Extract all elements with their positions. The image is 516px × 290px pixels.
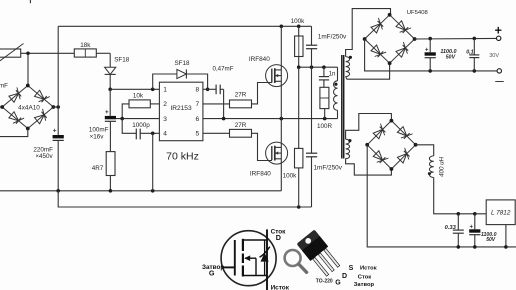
resistor 4R7 xyxy=(106,152,115,176)
svg-text:Исток: Исток xyxy=(271,285,290,290)
svg-text:G: G xyxy=(335,280,341,287)
node 0.33 bottom xyxy=(457,245,461,249)
svg-text:D: D xyxy=(276,233,281,242)
wire bridge bottom corner to mains xyxy=(0,129,28,137)
svg-text:100k: 100k xyxy=(291,18,306,25)
node A /1n xyxy=(322,65,326,69)
node Vcc xyxy=(108,88,112,92)
detail gate lead xyxy=(223,266,235,268)
wire 27R to Q1 gate xyxy=(252,83,273,104)
wire sec2 bottom to bridge2 bottom corner xyxy=(346,159,392,176)
svg-text:1mF: 1mF xyxy=(0,83,8,90)
inductor 400uH xyxy=(416,145,434,156)
bridge rectifier VD 4x4A10 corner node 1 xyxy=(52,105,56,109)
svg-text:10k: 10k xyxy=(133,93,144,100)
svg-text:D: D xyxy=(342,273,347,280)
wire inductor to L7812 input xyxy=(434,178,487,214)
node A /100k xyxy=(297,65,301,69)
terminal +30V xyxy=(497,36,501,40)
bridge rectifier (12V output) corner node 0 xyxy=(390,119,394,123)
bridge rectifier UF5408 (30V output) diode D-b xyxy=(371,45,380,54)
terminal -30V xyxy=(497,69,501,73)
bridge rectifier (12V output) diode D-c xyxy=(397,127,406,136)
wire 10k to CT node xyxy=(122,104,129,119)
svg-text:1: 1 xyxy=(163,87,167,94)
wire Q1 drain-source vertical xyxy=(280,26,282,118)
node lower 100k on return line xyxy=(297,205,301,209)
inductor L 400uH coil xyxy=(429,156,433,178)
wire -30V rail xyxy=(365,39,497,71)
svg-text:Затвор: Затвор xyxy=(354,282,375,288)
capacitor 1000p xyxy=(135,129,137,140)
capacitor C 220mF/450v plates xyxy=(53,135,64,138)
svg-text:L 7812: L 7812 xyxy=(491,210,511,217)
node 0,1- xyxy=(473,69,477,73)
wire sec1 top to bridge top corner xyxy=(346,9,391,57)
wire CT down to 1000p xyxy=(122,119,136,134)
wire pin5 LO xyxy=(203,132,230,134)
dot inductor xyxy=(428,172,431,175)
svg-text:30V: 30V xyxy=(489,53,499,59)
capacitor 0.33 xyxy=(457,214,459,230)
svg-text:+: + xyxy=(53,128,57,135)
transformer T1 secondary2 coil xyxy=(346,139,350,158)
svg-text:4R7: 4R7 xyxy=(92,165,104,172)
svg-text:UF5408: UF5408 xyxy=(407,10,429,16)
wire pin3 CT xyxy=(116,118,160,120)
wire Q2 drain-source vertical xyxy=(280,119,282,191)
node 0,1+ xyxy=(473,37,477,41)
svg-text:+: + xyxy=(105,109,109,116)
wire VD2 cathode to pin8 wire xyxy=(186,74,207,89)
wire COM down to rail xyxy=(152,133,154,191)
bridge rectifier (12V output) corner node 1 xyxy=(414,143,418,147)
wire L7812 gnd xyxy=(505,225,507,247)
node VS/half-bridge midpoint xyxy=(280,117,284,121)
MOSFET pinout detail circle xyxy=(221,231,276,286)
bridge rectifier VD 4x4A10 corner node 2 xyxy=(26,127,30,131)
wire sec1 bottom to bridge bottom corner xyxy=(346,63,390,79)
detail drain-source vertical xyxy=(266,229,268,290)
svg-text:5: 5 xyxy=(196,131,200,138)
node VS/0,47mF xyxy=(222,117,226,121)
svg-text:100k: 100k xyxy=(283,173,298,180)
svg-text:TO-220: TO-220 xyxy=(316,278,333,284)
transistor Q1 IRF840 symbol xyxy=(266,65,288,87)
wire bridge2 minus down xyxy=(367,145,516,247)
bridge rectifier (12V output) diode D-b xyxy=(373,151,382,160)
wire 1n to 100R xyxy=(323,80,325,87)
bridge rectifier UF5408 (30V output) corner node 0 xyxy=(388,13,392,17)
bridge rectifier (12V output) corner node 2 xyxy=(390,167,394,171)
bridge rectifier UF5408 (30V output) diode D-a xyxy=(371,24,380,33)
svg-text:400 uH: 400 uH xyxy=(439,156,446,176)
svg-text:Сток: Сток xyxy=(358,274,371,280)
wire stub top edge xyxy=(29,0,31,3)
svg-text:1n: 1n xyxy=(329,70,336,77)
wire mains to bridge left corner xyxy=(0,106,2,108)
detail channel segments xyxy=(242,239,244,251)
svg-text:18k: 18k xyxy=(80,42,91,49)
svg-text:7: 7 xyxy=(196,101,200,108)
resistor 100R (snubber) xyxy=(320,87,329,108)
wire cap to VS drop xyxy=(220,88,223,90)
wire return line to lower 1mF cap xyxy=(58,191,311,207)
svg-text:0.33: 0.33 xyxy=(445,225,457,231)
node 100k on +rail xyxy=(297,25,301,29)
wire 100mF to 4R7 xyxy=(109,121,111,151)
bridge rectifier UF5408 (30V output) corner node 2 xyxy=(388,61,392,65)
wire top +310V rail xyxy=(58,25,311,27)
node pin4 line on rail xyxy=(151,189,155,193)
wire down to SF18 anode xyxy=(109,53,111,67)
wire down to mains bridge top corner xyxy=(27,53,29,85)
wire 100k-upper node to 100k-lower xyxy=(298,67,300,148)
svg-text:0,1: 0,1 xyxy=(466,49,474,55)
capacitor 100mF x16v (electrolytic) xyxy=(109,89,111,116)
node +310V / bridge+ xyxy=(56,105,60,109)
wire 4R7 to gnd rail xyxy=(109,176,111,191)
wire bridge right corner to +310V line xyxy=(53,106,58,108)
wire 100R to VS node xyxy=(324,109,326,119)
bridge rectifier VD 4x4A10 diode D-c xyxy=(35,90,45,99)
transformer T1 primary winding xyxy=(337,67,339,81)
svg-text:0,47mF: 0,47mF xyxy=(213,66,234,73)
detail source tap xyxy=(243,275,267,277)
node junction bridge-top / mains xyxy=(26,52,30,56)
svg-text:1000p: 1000p xyxy=(132,122,150,129)
capacitor 1100uF-2 plates xyxy=(469,229,480,232)
wire SF18 cathode down xyxy=(109,74,111,89)
capacitor 1100.0/50V output xyxy=(429,39,431,53)
resistor 18k xyxy=(74,49,96,57)
capacitor 0,47mF xyxy=(215,85,217,95)
svg-text:×450v: ×450v xyxy=(35,153,53,160)
svg-text:4x4A10: 4x4A10 xyxy=(18,105,40,112)
wire 27R to Q2 gate xyxy=(252,133,273,160)
detail gate bar xyxy=(234,240,236,276)
bridge rectifier VD 4x4A10 diode D-b xyxy=(9,112,19,121)
svg-text:50V: 50V xyxy=(486,237,496,243)
node 1100uF+ xyxy=(428,37,432,41)
node 4R7 on rail xyxy=(109,189,113,193)
wire +30V rail xyxy=(415,37,497,40)
node pin8/VD2 xyxy=(206,88,210,92)
wire pin6 VS / half-bridge midpoint xyxy=(203,118,338,120)
bridge rectifier VD 4x4A10 corner node 3 xyxy=(0,105,4,109)
bridge rectifier (12V output) diode D-d xyxy=(397,154,406,163)
svg-text:+: + xyxy=(495,24,502,38)
svg-text:×16v: ×16v xyxy=(90,133,105,140)
node 220mF- on rail xyxy=(56,189,60,193)
resistor 100k (lower) xyxy=(295,148,303,168)
bridge rectifier VD 4x4A10 diode D-a xyxy=(9,93,19,102)
svg-text:27R: 27R xyxy=(235,122,247,129)
bridge rectifier VD 4x4A10 corner node 0 xyxy=(26,84,30,88)
svg-text:S: S xyxy=(349,265,354,272)
TO-220 package drawing xyxy=(297,229,343,278)
capacitor 1n (snubber) xyxy=(323,67,325,76)
wire pin8 to 0,47mF xyxy=(203,88,216,90)
wire sec2 top to bridge2 top corner xyxy=(346,114,392,140)
svg-text:IR2153: IR2153 xyxy=(170,105,192,112)
svg-text:SF18: SF18 xyxy=(114,57,130,64)
svg-text:100R: 100R xyxy=(317,123,333,130)
node 1100-2 bottom xyxy=(473,245,477,249)
transformer T1 secondary1 coil xyxy=(346,57,350,77)
svg-text:IRF840: IRF840 xyxy=(249,56,270,63)
capacitor 1100.0/50V (12V side) xyxy=(474,214,476,230)
wire 10k to pin2 xyxy=(150,103,159,105)
capacitor 1100uF plates xyxy=(425,52,436,55)
svg-text:50V: 50V xyxy=(446,54,456,60)
wire lower 1mF to return line xyxy=(311,157,313,207)
svg-text:6: 6 xyxy=(196,116,200,123)
svg-text:Исток: Исток xyxy=(360,266,377,272)
svg-text:G: G xyxy=(209,269,215,278)
bridge rectifier (12V output) xyxy=(367,121,391,145)
wire between 1mF caps xyxy=(311,49,313,154)
thermistor RT1 (box with diagonal) xyxy=(0,49,21,57)
wire node A (snubber top) xyxy=(299,66,338,68)
bridge rectifier VD 4x4A10 diode D-d xyxy=(35,115,45,124)
node drain Q1 on +rail xyxy=(280,25,284,29)
diode SF18 VD2 (pointing right) xyxy=(177,69,187,78)
node 0.33 top xyxy=(457,212,461,216)
bridge rectifier UF5408 (30V output) corner node 1 xyxy=(413,37,417,41)
resistor 100k (upper) xyxy=(298,26,300,36)
svg-text:IRF840: IRF840 xyxy=(250,170,271,177)
bridge rectifier UF5408 (30V output) xyxy=(365,15,390,39)
node pin1/bootstrap loop xyxy=(151,88,155,92)
node pin4/COM xyxy=(151,132,155,136)
bridge rectifier VD 4x4A10 xyxy=(2,86,28,108)
node VS/100R xyxy=(323,117,327,121)
node CT xyxy=(120,117,124,121)
detail body arrow xyxy=(245,257,256,259)
transformer T1 core xyxy=(341,55,343,159)
node L7812 gnd xyxy=(504,245,508,249)
svg-text:1mF/250v: 1mF/250v xyxy=(318,34,347,41)
wire 18k to diode SF18 xyxy=(96,52,110,54)
op-amp/driver IC U1 IR2153 xyxy=(159,82,203,141)
transistor Q2 IRF840 symbol xyxy=(266,142,288,164)
capacitor 1mF/250v (upper) xyxy=(311,26,313,45)
svg-text:27R: 27R xyxy=(235,92,247,99)
bridge rectifier (12V output) diode D-a xyxy=(373,129,382,138)
magnifier icon xyxy=(285,250,301,266)
svg-text:—: — xyxy=(495,76,504,86)
node 1100uF- xyxy=(428,69,432,73)
svg-text:4: 4 xyxy=(163,131,167,138)
detail drain tap xyxy=(243,239,267,241)
wire +310V vertical x=58 xyxy=(57,26,59,135)
detail body zener diode xyxy=(264,240,266,253)
bridge rectifier UF5408 (30V output) diode D-d xyxy=(396,48,405,57)
phasing dot secondary1 xyxy=(349,56,352,59)
bottom rail (primary ground) xyxy=(0,190,281,192)
svg-text:8: 8 xyxy=(196,87,200,94)
wire 100k lower to return line xyxy=(298,168,300,207)
svg-text:70 kHz: 70 kHz xyxy=(166,151,199,163)
node 1100-2 top xyxy=(473,212,477,216)
svg-text:2: 2 xyxy=(163,101,167,108)
svg-text:3: 3 xyxy=(163,116,167,123)
svg-text:SF18: SF18 xyxy=(174,60,190,67)
wire pin7 HO xyxy=(203,103,230,105)
bootstrap loop with diode SF18 (VD2) xyxy=(153,74,177,89)
capacitor 0,1 output xyxy=(473,38,475,55)
capacitor 1mF/250v (lower) xyxy=(306,152,317,154)
bridge rectifier UF5408 (30V output) diode D-c xyxy=(396,21,405,30)
bridge rectifier (12V output) corner node 3 xyxy=(365,143,369,147)
transformer T1 primary coil xyxy=(334,81,338,111)
bridge rectifier UF5408 (30V output) corner node 3 xyxy=(363,37,367,41)
capacitor C 100mF/16v plates xyxy=(105,116,116,119)
wire 1000p to pin4 xyxy=(140,132,159,134)
node A /1mF caps xyxy=(310,65,314,69)
diode SF18 (VD1, vertical, pointing down) xyxy=(105,67,116,74)
phasing dot secondary2 xyxy=(348,139,351,142)
wire 0,47mF down to VS node xyxy=(223,89,225,118)
svg-text:1mF/250v: 1mF/250v xyxy=(314,164,343,171)
regulator U2 L7812 xyxy=(486,200,515,225)
wire Vcc to IC pin 1 xyxy=(110,88,159,90)
phasing dot primary xyxy=(334,83,337,86)
wire thermistor to R 18k xyxy=(21,52,75,54)
